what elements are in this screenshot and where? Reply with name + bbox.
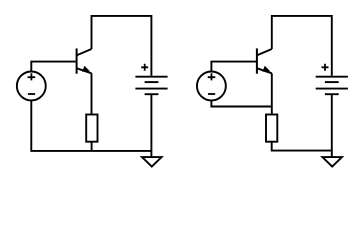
wire resistor R1 to ground rail <box>91 142 93 151</box>
transistor Q2 <box>257 48 272 73</box>
wire V2 minus to emitter node of Q2 <box>211 101 271 107</box>
ground <box>322 157 342 167</box>
wire V1 minus to ground rail to ground node <box>31 101 151 151</box>
ground <box>142 157 162 167</box>
battery B1 <box>135 64 167 94</box>
resistor R1 <box>86 115 97 142</box>
wire emitter of Q1 to resistor R1 <box>91 73 93 114</box>
wire resistor R2 to ground node <box>272 142 332 151</box>
wire emitter of Q2 to resistor R2 <box>271 73 273 114</box>
wire collector of Q1 to battery B1 positive <box>92 16 152 76</box>
wire battery B1 negative to ground <box>150 94 152 157</box>
wire V1 plus to base of Q1 <box>31 62 76 72</box>
battery B2 <box>316 64 348 94</box>
voltage source V1 <box>17 72 46 101</box>
transistor Q1 <box>77 48 92 73</box>
wire battery B2 negative to ground <box>331 94 333 157</box>
wire collector of Q2 to battery B2 positive <box>272 16 332 76</box>
resistor R2 <box>266 115 277 142</box>
wire V2 plus to base of Q2 <box>211 62 256 72</box>
voltage source V2 <box>197 72 226 101</box>
